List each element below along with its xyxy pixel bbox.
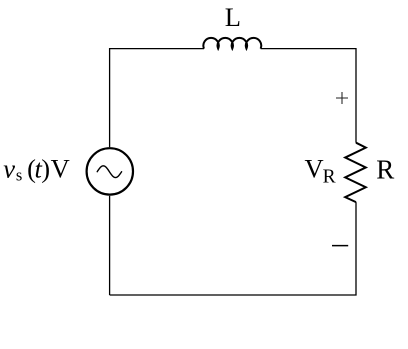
minus polarity mark [332, 245, 348, 247]
wire bottom-left segment [109, 196, 111, 295]
wire bottom-right segment [110, 202, 356, 295]
svg-text:VR: VR [305, 154, 336, 188]
svg-text:): ) [41, 153, 50, 183]
source sine wave [97, 166, 121, 178]
svg-text:s: s [16, 165, 22, 184]
svg-text:v: v [3, 153, 15, 183]
source U1 circle [87, 148, 133, 194]
svg-text:R: R [376, 155, 394, 185]
inductor L [203, 38, 261, 49]
plus polarity mark [336, 92, 348, 104]
wire top-right segment [261, 49, 356, 143]
resistor R [345, 143, 366, 202]
wire top-left segment [110, 49, 204, 148]
svg-text:L: L [225, 2, 241, 32]
svg-text:V: V [51, 153, 70, 183]
